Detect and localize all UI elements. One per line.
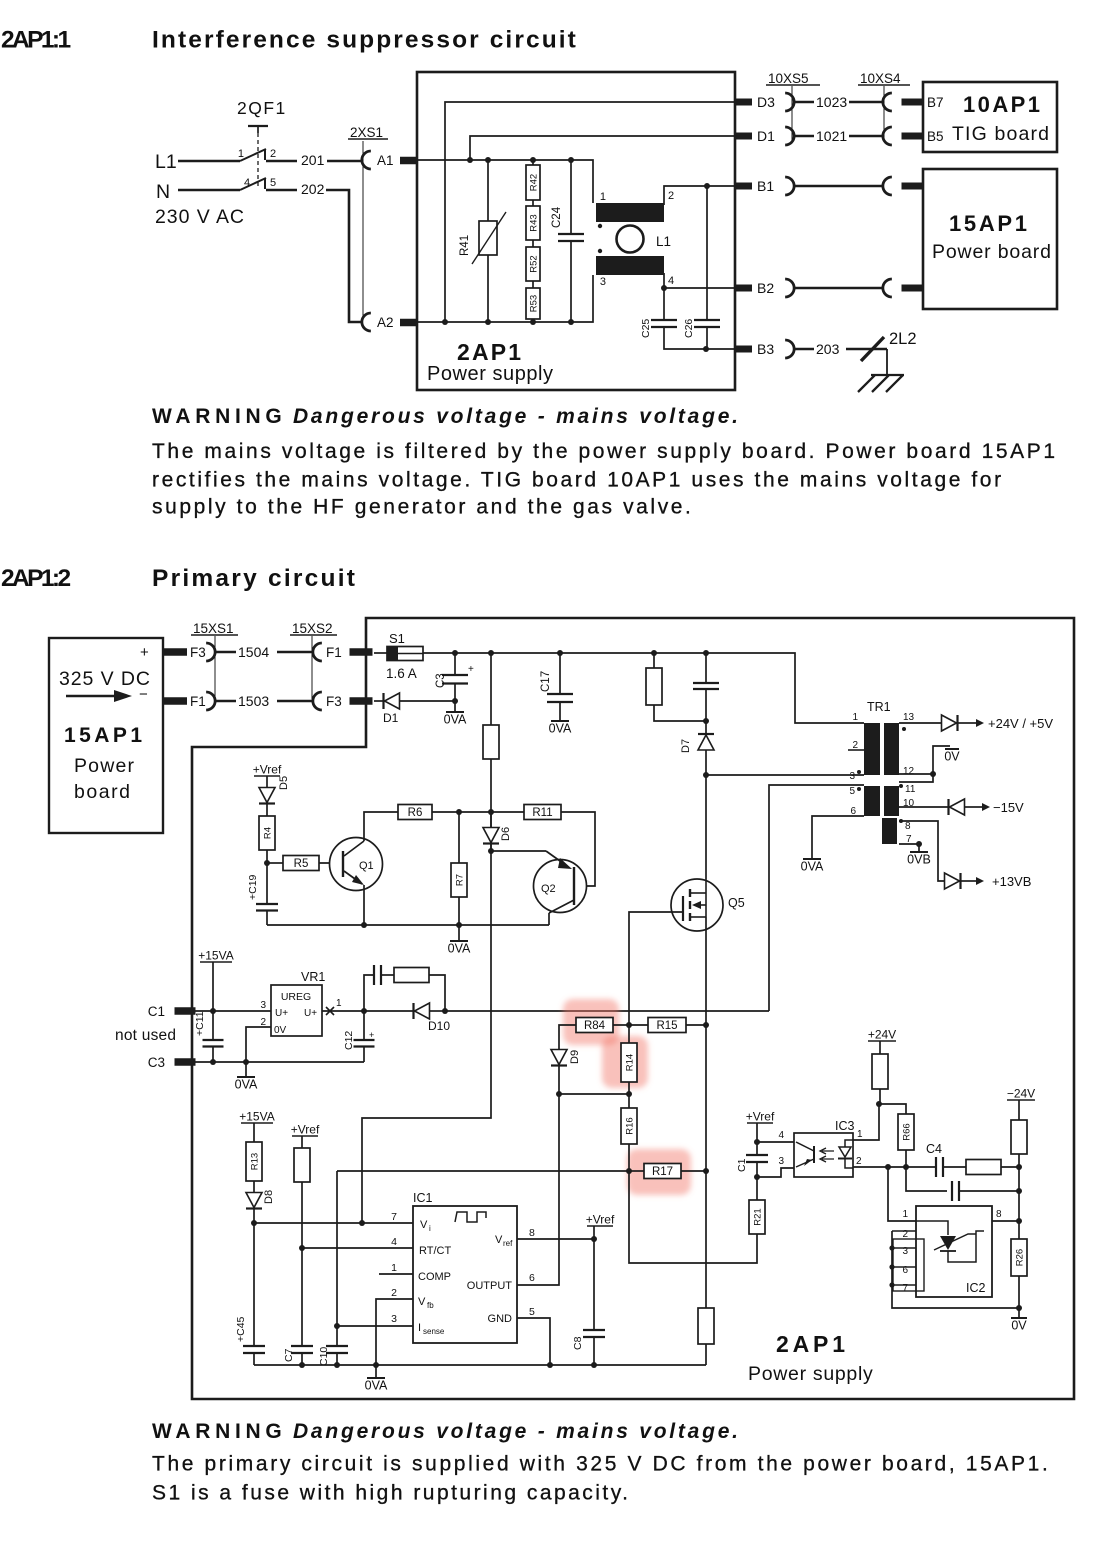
svg-text:2: 2: [270, 148, 276, 160]
polarity dot pin 13: [902, 727, 906, 731]
svg-text:S1: S1: [389, 631, 405, 646]
svg-text:Power supply: Power supply: [748, 1363, 873, 1385]
svg-text:+15VA: +15VA: [198, 949, 233, 963]
box 15AP1 power board source: [49, 638, 163, 833]
svg-text:4: 4: [778, 1130, 784, 1141]
capacitor C3 (electrolytic): [454, 653, 456, 675]
junction +15VA-C1 row: [210, 1008, 216, 1014]
wire to Q2 emitter: [491, 850, 546, 852]
resistor R21: [756, 1177, 758, 1200]
terminal stub plus: [163, 648, 187, 656]
optocoupler IC3 box: [794, 1133, 853, 1177]
TR1 aux winding bar (pins 5-6): [864, 786, 880, 816]
ground 0VA at C3: [446, 711, 464, 713]
wire +15VA to R13: [253, 1123, 255, 1142]
wire R84 to R15: [613, 1024, 648, 1026]
junction RT-C7-pin4: [299, 1245, 305, 1251]
svg-text:U+: U+: [275, 1008, 288, 1019]
svg-text:S1 is a fuse with high rupturi: S1 is a fuse with high rupturing capacit…: [152, 1482, 630, 1505]
junction C17: [557, 650, 563, 656]
svg-text:C7: C7: [283, 1348, 295, 1362]
inductor L1 winding bottom: [596, 256, 664, 275]
junction C1-pin3: [754, 1174, 760, 1180]
svg-text:WARNING: WARNING: [152, 1420, 286, 1443]
svg-text:C3: C3: [148, 1055, 165, 1070]
wire R4 to node: [266, 850, 268, 863]
wire 1021 left: [794, 135, 814, 138]
wire IC3 pin1 to +24V node: [853, 1104, 879, 1140]
junction R42 top: [530, 157, 536, 163]
junction startup line: [488, 809, 494, 815]
capacitor C4: [936, 1157, 943, 1177]
svg-text:8: 8: [529, 1227, 535, 1239]
wire startup feed to IC1 pin7: [362, 759, 491, 1223]
wire D9 to output node: [558, 1066, 560, 1094]
svg-text:D10: D10: [428, 1019, 450, 1033]
svg-text:1: 1: [238, 148, 244, 160]
svg-text:1: 1: [852, 712, 858, 723]
svg-text:−24V: −24V: [1007, 1087, 1035, 1101]
terminal stub B2: [734, 285, 752, 292]
wire C4 to resistor: [943, 1166, 966, 1168]
svg-text:1504: 1504: [238, 644, 269, 660]
wire TR1 pin 7 to 0VB: [899, 843, 919, 845]
svg-text:sense: sense: [423, 1327, 445, 1336]
wire IC1 pin 7 row: [254, 1222, 413, 1224]
resistor R52: [526, 247, 540, 281]
TR1 pin 2 stub: [848, 749, 864, 751]
svg-text:i: i: [429, 1224, 431, 1233]
svg-text:15AP1: 15AP1: [64, 724, 145, 747]
svg-text:2L2: 2L2: [889, 330, 917, 348]
connector 15XS2 pin F1: [313, 643, 322, 661]
svg-text:D3: D3: [757, 94, 775, 110]
connector 10XS4 pin: [883, 93, 892, 111]
svg-text:1: 1: [902, 1209, 908, 1220]
resistor R26: [1018, 1221, 1020, 1239]
wire IC2 ground bus: [892, 1231, 1019, 1308]
junction cap2--24V line: [1016, 1188, 1022, 1194]
svg-text:board: board: [74, 781, 132, 803]
junction comp--24V line: [1016, 1164, 1022, 1170]
highlight R14: [602, 1036, 648, 1088]
capacitor comp 2 (unlabeled): [952, 1181, 959, 1201]
connector pin: [785, 279, 794, 297]
junction A2-D3: [442, 319, 448, 325]
svg-text:V: V: [420, 1219, 428, 1231]
wire C3 row: [195, 1061, 364, 1063]
wire VR1 output: [322, 1010, 413, 1012]
capacitor C8: [593, 1239, 595, 1330]
connector 2XS1 pin A2: [362, 313, 371, 331]
wire 202: [266, 189, 297, 192]
svg-text:+15VA: +15VA: [239, 1110, 274, 1124]
junction Vref-C8: [591, 1236, 597, 1242]
junction R7 top: [456, 809, 462, 815]
junction startup feed-pin7: [359, 1220, 365, 1226]
svg-text:D1: D1: [383, 711, 399, 725]
svg-text:C3: C3: [435, 673, 447, 688]
svg-text:0V: 0V: [1011, 1319, 1027, 1333]
svg-text:15XS2: 15XS2: [292, 621, 333, 636]
resistor R43: [526, 206, 540, 240]
polarity dot pin 11: [899, 784, 903, 788]
wire to R66: [879, 1104, 906, 1114]
disconnect slash 2L2: [861, 337, 884, 361]
resistor +24V feed (unlabeled): [872, 1054, 888, 1089]
IC2 pin bracket box: [893, 1239, 924, 1291]
svg-text:+: +: [140, 644, 149, 661]
terminal stub B3: [734, 346, 752, 353]
junction C3: [452, 650, 458, 656]
wire to 0V flag: [1018, 1308, 1020, 1318]
connector 2XS1 strip line: [362, 141, 364, 318]
wire to power board: [794, 287, 883, 290]
svg-text:F3: F3: [326, 694, 342, 709]
svg-text:7: 7: [391, 1211, 397, 1223]
svg-text:fb: fb: [427, 1301, 434, 1310]
junction pin8--24V line: [1016, 1218, 1022, 1224]
wire IC1 pin 4 row: [302, 1247, 413, 1249]
svg-text:R52: R52: [529, 255, 540, 272]
wire to chassis: [886, 349, 888, 375]
svg-text:F1: F1: [326, 645, 342, 660]
junction R41 top: [485, 157, 491, 163]
svg-text:15XS1: 15XS1: [193, 621, 234, 636]
wire VR1 pin2 to 0VA: [246, 1027, 271, 1062]
wire resistor to junction: [879, 1089, 881, 1104]
wire to power board: [794, 185, 883, 188]
svg-text:R41: R41: [459, 235, 471, 256]
wire TR1 pin 6 to 0VA: [812, 816, 864, 859]
svg-text:3: 3: [391, 1313, 397, 1325]
connector 10XS5 pin D1: [785, 127, 794, 145]
svg-text:C10: C10: [318, 1347, 330, 1366]
svg-text:0V: 0V: [274, 1025, 287, 1036]
connector 15XS2 pin F3: [313, 692, 322, 710]
junction R7 bottom: [456, 922, 462, 928]
svg-text:R5: R5: [294, 858, 309, 870]
svg-text:+C45: +C45: [235, 1316, 247, 1342]
svg-text:Q1: Q1: [359, 860, 374, 872]
wire +15VA down: [212, 962, 214, 1011]
wire R17 to source line: [681, 1170, 706, 1172]
IC2 internal TL431: [916, 1221, 948, 1235]
polarity dot bottom: [598, 249, 602, 253]
junction R4-R5-C19: [264, 860, 270, 866]
svg-text:10AP1: 10AP1: [963, 92, 1042, 117]
svg-text:F3: F3: [190, 645, 206, 660]
junction VR1 out-C12-RC: [361, 1008, 367, 1014]
highlight R84: [563, 999, 619, 1045]
svg-text:C1: C1: [736, 1158, 748, 1172]
capacitor C19: [266, 863, 268, 904]
svg-text:R11: R11: [532, 807, 552, 819]
junction RC-D10: [442, 1008, 448, 1014]
svg-text:13: 13: [903, 712, 915, 723]
junction gate-R84-R14-R15: [626, 1022, 632, 1028]
wire Isense sense line: [336, 1171, 338, 1326]
svg-text:0VA: 0VA: [448, 942, 471, 956]
svg-text:N: N: [156, 181, 170, 203]
svg-text:R17: R17: [652, 1166, 673, 1178]
wire R11 to Q2 base: [561, 812, 595, 886]
TR1 secondary bar (pins 8-7): [882, 818, 897, 844]
TR1 secondary bar (pins 11-10): [884, 786, 899, 816]
junction R26-0V: [1016, 1305, 1022, 1311]
IC op-amp IC1 box: [413, 1206, 517, 1343]
svg-text:10XS4: 10XS4: [860, 71, 901, 86]
svg-text:2: 2: [668, 190, 674, 202]
svg-text:+Vref: +Vref: [586, 1213, 615, 1227]
svg-text:4: 4: [391, 1236, 397, 1248]
connector pin: [785, 177, 794, 195]
svg-text:C1: C1: [148, 1004, 165, 1019]
resistor R66: [898, 1114, 914, 1150]
terminal stub: [902, 285, 923, 292]
svg-text:203: 203: [816, 341, 840, 357]
IC IC2 box: [916, 1206, 992, 1297]
wire Q1 collector to R6: [364, 812, 398, 841]
junction pin2-rail: [373, 1362, 379, 1368]
wire TR1 pin 5 feedback from D10: [769, 785, 864, 1011]
junction pin4-C1: [754, 1139, 760, 1145]
connector 2XS1 pin A1: [362, 151, 371, 169]
junction Q1 emitter: [361, 922, 367, 928]
wire to R5: [267, 862, 283, 864]
svg-text:230 V AC: 230 V AC: [155, 206, 245, 228]
resistor (RC branch): [394, 968, 429, 983]
svg-text:Dangerous voltage - mains volt: Dangerous voltage - mains voltage.: [293, 1420, 741, 1443]
junction C11 bottom: [210, 1059, 216, 1065]
svg-text:IC3: IC3: [835, 1119, 855, 1133]
svg-text:6: 6: [529, 1272, 535, 1284]
junction pin2-IC2 pin1: [885, 1164, 891, 1170]
capacitor C26: [706, 186, 708, 320]
svg-text:5: 5: [270, 177, 276, 189]
svg-text:B5: B5: [927, 129, 944, 144]
svg-text:0V: 0V: [944, 750, 960, 764]
wire R84 to D9: [559, 1025, 576, 1049]
wire +Vref to pin4: [756, 1123, 758, 1142]
svg-text:11: 11: [905, 784, 916, 795]
resistor R17: [644, 1164, 681, 1179]
svg-text:3: 3: [778, 1156, 784, 1167]
box 10AP1 TIG board: [923, 82, 1057, 152]
capacitor C12: [363, 1011, 365, 1040]
svg-text:1: 1: [600, 191, 606, 203]
svg-text:R13: R13: [250, 1153, 261, 1170]
resistor chain R42 R43 R52 R53: [532, 160, 534, 165]
capacitor C24: [570, 160, 572, 234]
wire 203 left: [794, 348, 814, 351]
ground 0VA (IC1): [367, 1377, 385, 1379]
wire 203 right: [846, 348, 887, 351]
resistor comp (unlabeled): [966, 1160, 1001, 1175]
svg-text:V: V: [418, 1296, 426, 1308]
svg-text:+24V / +5V: +24V / +5V: [988, 716, 1053, 731]
svg-text:1503: 1503: [238, 693, 269, 709]
svg-text:Q2: Q2: [541, 883, 556, 895]
junction VR1 pin2: [243, 1059, 249, 1065]
svg-text:TR1: TR1: [867, 700, 891, 714]
diode D8: [246, 1193, 262, 1208]
diode D7: [705, 721, 707, 733]
ground 0VA (VR1): [237, 1076, 255, 1078]
startup resistor (unlabeled): [490, 653, 492, 725]
connector pin B3: [785, 340, 794, 358]
svg-text:R6: R6: [408, 807, 423, 819]
resistor current sense (unlabeled): [698, 1308, 714, 1344]
svg-text:RT/CT: RT/CT: [419, 1245, 451, 1257]
svg-text:D9: D9: [569, 1050, 581, 1064]
junction R16-R17: [626, 1168, 632, 1174]
svg-text:+: +: [369, 1030, 374, 1040]
svg-text:R66: R66: [902, 1123, 913, 1140]
svg-text:+Vref: +Vref: [291, 1123, 320, 1137]
wire R6 to R11: [432, 811, 524, 813]
junction D1-C3: [452, 698, 458, 704]
wire IC3 pin 4: [757, 1141, 794, 1143]
wire C25 to B3: [664, 327, 734, 350]
arrow +13VB: [968, 880, 978, 882]
terminal stub D3: [734, 99, 752, 106]
wire 1021 right: [849, 135, 883, 138]
junction R41 bottom: [485, 319, 491, 325]
wire D1 to 0VA node: [400, 700, 455, 702]
wire Q5 source down: [705, 917, 707, 1308]
svg-text:Primary circuit: Primary circuit: [152, 565, 357, 592]
wire IC3 pin 2 row: [853, 1166, 936, 1168]
resistor R14: [628, 1025, 630, 1043]
snubber resistor (unlabeled): [653, 653, 655, 668]
wire IC1 pin 2 to 0VA: [376, 1299, 413, 1365]
frame 2AP1 power supply (section 2): [192, 618, 1074, 1399]
junction C7-rail: [299, 1362, 305, 1368]
svg-text:R7: R7: [455, 874, 466, 886]
resistor R6: [398, 805, 432, 820]
svg-text:R15: R15: [656, 1020, 677, 1032]
svg-text:5: 5: [849, 786, 855, 797]
wire IC1 pin 5 GND: [517, 1318, 550, 1365]
svg-text:2AP1:1: 2AP1:1: [1, 27, 70, 54]
svg-text:R21: R21: [753, 1208, 764, 1225]
svg-text:1: 1: [391, 1262, 397, 1274]
svg-text:Power board: Power board: [932, 241, 1052, 263]
svg-text:+Vref: +Vref: [746, 1110, 775, 1124]
junction D8-C45-pin7: [251, 1220, 257, 1226]
svg-text:8: 8: [905, 821, 911, 832]
svg-text:A2: A2: [377, 315, 394, 330]
junction +24V feed: [876, 1101, 882, 1107]
svg-text:R42: R42: [529, 174, 540, 191]
breaker 2QF1 actuator T-bar: [248, 125, 268, 127]
wire D1 net: [470, 136, 734, 160]
svg-text:4: 4: [244, 177, 250, 189]
svg-text:WARNING: WARNING: [152, 405, 286, 428]
junction snubber C: [703, 650, 709, 656]
junction B1-C26: [704, 183, 710, 189]
svg-text:0VA: 0VA: [444, 713, 467, 727]
svg-text:OUTPUT: OUTPUT: [467, 1280, 513, 1292]
svg-text:B1: B1: [757, 178, 774, 194]
svg-text:C17: C17: [540, 671, 552, 692]
capacitor C45: [253, 1223, 255, 1346]
svg-text:COMP: COMP: [418, 1271, 451, 1283]
inductor L1 winding top: [596, 203, 664, 222]
svg-text:I: I: [418, 1322, 421, 1334]
svg-text:2AP1:2: 2AP1:2: [1, 565, 70, 592]
wire A1 rail: [417, 160, 593, 203]
wire +Vref to D5: [266, 776, 268, 788]
box 15AP1 power board: [923, 169, 1057, 309]
svg-text:12: 12: [903, 766, 915, 777]
diode D9: [551, 1050, 567, 1065]
resistor R16: [628, 1094, 630, 1108]
svg-text:R16: R16: [625, 1117, 636, 1134]
capacitor C7: [301, 1248, 303, 1346]
svg-text:5: 5: [529, 1306, 535, 1318]
snubber capacitor (unlabeled): [705, 653, 707, 683]
svg-text:Q5: Q5: [728, 896, 745, 910]
wire to 0VA flag: [375, 1365, 377, 1378]
wire 201: [266, 160, 297, 163]
wire R17 row to Isense: [337, 1170, 629, 1172]
wire OUTPUT column: [517, 1094, 559, 1285]
svg-text:2QF1: 2QF1: [237, 98, 287, 118]
resistor R5: [283, 856, 319, 871]
wire 1503 left: [215, 700, 236, 703]
connector 15XS2 strip line: [311, 636, 313, 699]
wire RT to pin4: [301, 1182, 303, 1248]
wire 1023 right: [849, 101, 883, 104]
svg-text:R14: R14: [625, 1054, 636, 1071]
svg-text:not used: not used: [115, 1027, 176, 1044]
junction C8-rail: [591, 1362, 597, 1368]
svg-text:R53: R53: [529, 295, 540, 312]
terminal stub minus: [163, 697, 187, 705]
svg-text:The mains voltage is filtered: The mains voltage is filtered by the pow…: [152, 440, 1058, 463]
svg-text:Dangerous voltage - mains volt: Dangerous voltage - mains voltage.: [293, 405, 741, 428]
wire snubber R to C: [654, 705, 706, 721]
svg-text:2: 2: [391, 1287, 397, 1299]
svg-text:0VA: 0VA: [365, 1379, 388, 1393]
junction snubber-D7: [703, 718, 709, 724]
svg-text:VR1: VR1: [301, 970, 325, 984]
svg-text:+: +: [468, 664, 474, 675]
svg-text:IC1: IC1: [413, 1191, 433, 1205]
svg-text:202: 202: [301, 181, 325, 197]
wire Q1 emitter to rail: [363, 885, 365, 925]
svg-text:−15V: −15V: [993, 800, 1024, 815]
polarity dot pin 8: [899, 819, 903, 823]
svg-text:2AP1: 2AP1: [776, 1331, 849, 1357]
junction Isense-C10: [334, 1323, 340, 1329]
diode D6: [490, 812, 492, 828]
junction R66-pin2 row: [903, 1164, 909, 1170]
connector 10XS4 strip line: [883, 86, 885, 140]
resistor -24V feed (unlabeled): [1011, 1120, 1027, 1154]
connector 10XS5 strip line: [791, 86, 793, 140]
junction R53 bottom: [530, 319, 536, 325]
terminal stub: [902, 183, 923, 190]
connector pin: [883, 177, 892, 195]
wire +Vref flag stub: [593, 1226, 595, 1239]
capacitor C17: [559, 653, 561, 694]
wire IC2 pin 1: [888, 1167, 916, 1221]
svg-text:Power supply: Power supply: [427, 363, 554, 385]
wire D5 to R4: [266, 804, 268, 816]
